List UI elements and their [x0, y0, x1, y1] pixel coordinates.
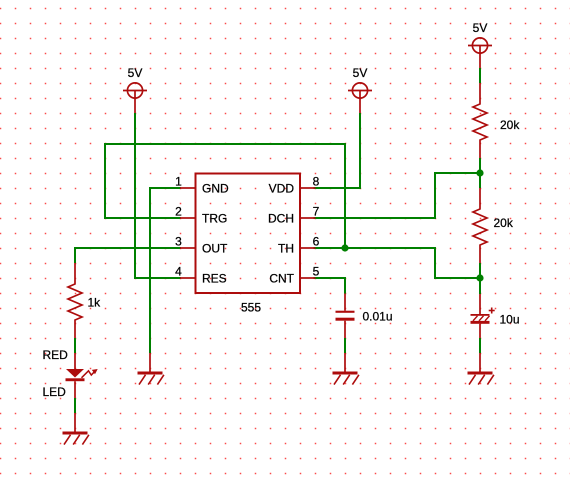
svg-text:20k: 20k [500, 118, 520, 132]
svg-text:VDD: VDD [269, 181, 295, 195]
power 5V right [468, 38, 492, 68]
svg-text:3: 3 [175, 235, 182, 249]
pin 2 TRG stub [180, 217, 195, 219]
wire: C1 to ground [344, 338, 346, 353]
wire: 5V supply down to RES (pin 4) [135, 113, 181, 278]
svg-text:555: 555 [241, 301, 261, 315]
svg-text:10u: 10u [500, 313, 520, 327]
pin 8 VDD stub [301, 187, 316, 189]
resistor R1 20k top [473, 83, 487, 158]
junction node TH/top-rail [341, 244, 348, 251]
svg-text:LED: LED [43, 385, 67, 399]
svg-text:1: 1 [175, 175, 182, 189]
LED D1 [66, 353, 98, 398]
svg-text:TH: TH [278, 241, 294, 255]
svg-text:DCH: DCH [268, 211, 294, 225]
svg-text:0.01u: 0.01u [363, 310, 393, 324]
svg-text:CNT: CNT [269, 271, 294, 285]
svg-text:RES: RES [202, 271, 227, 285]
ground below LED [63, 413, 89, 445]
svg-text:6: 6 [313, 235, 320, 249]
wire: R2 to capacitor C2 through bottom node [479, 263, 481, 294]
pin 4 RES stub [180, 277, 195, 279]
wire: CNT (pin 5) to capacitor C1 [314, 278, 346, 294]
power 5V middle [348, 83, 372, 113]
wire: OUT (pin 3) to resistor R3 1k [75, 248, 181, 263]
svg-text:5V: 5V [473, 21, 488, 35]
wire: TRG (pin 2) to top rail to TH junction [105, 144, 345, 248]
ground below C1 [333, 353, 359, 385]
wire: GND (pin 1) down to ground [150, 188, 181, 353]
svg-text:20k: 20k [494, 216, 514, 230]
svg-text:2: 2 [175, 205, 182, 219]
wire: LED D1 to ground [74, 398, 76, 413]
resistor R2 20k bottom [473, 188, 487, 263]
wire: R3 to LED D1 [74, 338, 76, 353]
pin 1 GND stub [180, 187, 195, 189]
pin 3 OUT stub [180, 247, 195, 249]
power 5V left [123, 83, 147, 113]
svg-text:5V: 5V [353, 66, 368, 80]
capacitor C1 0.01u [336, 294, 355, 339]
svg-text:5: 5 [313, 265, 320, 279]
wire: VDD (pin 8) to 5V supply [314, 113, 361, 188]
svg-text:TRG: TRG [202, 211, 227, 225]
svg-text:RED: RED [43, 348, 69, 362]
ground below pin 1 net [138, 353, 164, 385]
pin 6 TH stub [301, 247, 316, 249]
svg-text:OUT: OUT [202, 241, 228, 255]
svg-text:GND: GND [202, 181, 229, 195]
junction node divider mid (DCH) [476, 169, 483, 176]
svg-text:5V: 5V [128, 66, 143, 80]
ground below C2 [468, 353, 494, 385]
wire: DCH (pin 7) to divider mid node [314, 173, 480, 218]
wire: C2 to ground [479, 338, 481, 353]
pin 7 DCH stub [301, 217, 316, 219]
capacitor C2 10u polarized [471, 294, 495, 338]
svg-text:8: 8 [313, 175, 320, 189]
wire: R1 to R2 through mid node [479, 158, 481, 188]
svg-text:4: 4 [175, 265, 182, 279]
svg-text:1k: 1k [88, 296, 102, 310]
wire: TH (pin 6) to divider bottom node [314, 248, 480, 278]
resistor R3 1k [68, 263, 82, 338]
junction node divider bottom (TH) [476, 274, 483, 281]
svg-text:7: 7 [313, 205, 320, 219]
IC U1 555 timer body [196, 174, 301, 294]
pin 5 CNT stub [301, 277, 316, 279]
wire: 5V supply to resistor R1 [479, 68, 481, 83]
